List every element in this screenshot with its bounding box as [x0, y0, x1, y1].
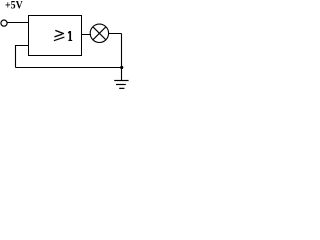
lamp HL: [90, 24, 108, 42]
gate label >= sign: [55, 30, 64, 33]
gate label 1: [68, 31, 72, 41]
wire lamp to corner: [108, 33, 121, 35]
wire output: [82, 34, 92, 36]
junction node: [120, 66, 123, 69]
wire down to rail: [121, 34, 123, 68]
wire bottom rail: [16, 67, 122, 69]
gate U1 (IEC OR gate box): [29, 16, 82, 56]
wire input2 vertical: [15, 45, 17, 68]
terminal (+5V input): [1, 20, 7, 26]
wire input2 stub: [16, 45, 29, 47]
gate label slanted bar of >=: [54, 37, 65, 41]
wire input1: [7, 22, 28, 24]
ground: [114, 68, 128, 89]
svg-text:+5V: +5V: [5, 0, 23, 12]
